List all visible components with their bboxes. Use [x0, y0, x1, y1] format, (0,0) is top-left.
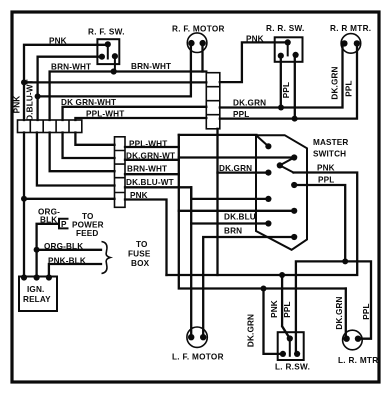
connector stack top-center [206, 73, 220, 129]
svg-text:RELAY: RELAY [23, 295, 51, 304]
svg-text:DK.GRN-WT: DK.GRN-WT [126, 152, 175, 161]
wire R.R.SW bottom-left contact down [280, 56, 282, 108]
master contact R4 [291, 234, 297, 240]
svg-text:BRN-WHT: BRN-WHT [127, 165, 167, 174]
svg-text:ORG-BLK: ORG-BLK [44, 242, 83, 251]
wire BRN to master right contact [203, 237, 294, 337]
wire BRN-WHT [50, 72, 207, 121]
node dot ORG-BLK [34, 247, 40, 253]
wire H1 PNK run [167, 173, 358, 276]
wire PPL from master [294, 185, 345, 261]
svg-text:R. R MTR.: R. R MTR. [330, 24, 371, 33]
switch L.R.SW. box [278, 332, 304, 360]
wire PNK top-left [24, 45, 108, 120]
switch R.R.SW. box [275, 37, 303, 62]
svg-text:PNK: PNK [246, 35, 264, 44]
svg-text:PPL: PPL [283, 301, 292, 317]
contact top R.F.SW [107, 44, 109, 58]
node dot DK.GRN / R.R.SW [278, 105, 284, 111]
wire PPL-WHT top run [75, 118, 206, 120]
wire DK.BLU to master contact [190, 187, 192, 337]
node dot B on V1 [21, 79, 27, 85]
master switch polygon [256, 135, 307, 250]
svg-text:PNK: PNK [13, 96, 22, 114]
wire to top stack cell1 [24, 81, 206, 83]
svg-text:IGN.: IGN. [27, 285, 44, 294]
svg-text:DK.GRN: DK.GRN [331, 66, 340, 99]
svg-text:BRN-WHT: BRN-WHT [131, 62, 171, 71]
wire ORG-BLK power feed [37, 224, 58, 276]
node dot A [35, 93, 41, 99]
svg-text:PNK: PNK [130, 191, 148, 200]
master contact R3 [291, 208, 297, 214]
motor L.R.MTR [343, 330, 363, 350]
wire PPL to R.R.MTR [220, 43, 357, 118]
node dot under RF switch [111, 68, 117, 74]
wire PNK jog down to H1 [125, 200, 167, 276]
wire DK.GRN to R.R.MTR [220, 43, 343, 107]
svg-text:PPL: PPL [345, 80, 354, 96]
svg-text:L. R. MTR.: L. R. MTR. [338, 356, 381, 365]
svg-text:FEED: FEED [76, 229, 98, 238]
svg-text:TO: TO [136, 240, 148, 249]
svg-text:P: P [61, 220, 67, 229]
wire V_B branch to master contact R3 [179, 210, 294, 212]
wire DK GRN-WHT lower run [63, 107, 207, 120]
svg-text:PPL: PPL [233, 110, 249, 119]
wire row cell3 to lower stack cell3 [50, 133, 115, 172]
master lever mid [280, 158, 294, 173]
node dot PPL junction [342, 258, 348, 264]
master contact L2 [265, 170, 271, 176]
node dot PNK bottom [279, 272, 285, 278]
wire PPL-WHT to master switch corner [179, 134, 257, 136]
wire ORG-BLK to fuse box [37, 249, 101, 251]
wire PPL-WHT from stack cell1 [125, 146, 179, 148]
svg-text:PNK: PNK [317, 164, 335, 173]
relay terminal dots [21, 274, 27, 280]
wire PNK to R.R.SW [220, 42, 288, 82]
svg-text:R. F. MOTOR: R. F. MOTOR [172, 25, 225, 34]
node dot C on V1 [21, 196, 27, 202]
motor R.F.MOTOR [187, 33, 207, 53]
svg-text:FUSE: FUSE [128, 250, 151, 259]
wire row cell4 to lower stack cell2 [63, 133, 115, 159]
wire row cell2 to lower stack cell4 [37, 133, 115, 186]
svg-text:BRN-WHT: BRN-WHT [51, 63, 91, 72]
svg-text:PPL: PPL [318, 176, 334, 185]
wire to master contact R1 [179, 156, 294, 158]
svg-text:DK.GRN: DK.GRN [233, 99, 266, 108]
svg-text:L. F. MOTOR: L. F. MOTOR [172, 353, 224, 362]
lever diagonal top [257, 136, 269, 147]
svg-text:DK.GRN: DK.GRN [247, 314, 256, 347]
switch R.F.SW. box [97, 39, 119, 64]
svg-text:D.BLU-WT: D.BLU-WT [26, 79, 35, 121]
connector stack lower-left [115, 137, 126, 208]
svg-text:DK.BLU-WT: DK.BLU-WT [126, 178, 174, 187]
wire V1 below row [23, 133, 25, 277]
svg-text:R. R. SW.: R. R. SW. [266, 24, 305, 33]
wire DK.GRN branch to master contact [218, 171, 269, 173]
brace fuse box [102, 242, 111, 274]
svg-text:PNK: PNK [270, 300, 279, 318]
svg-text:L. R.SW.: L. R.SW. [275, 363, 310, 372]
wire PPL to L.R.MTR [345, 261, 371, 338]
wire BRN-WHT from stack cell3 [125, 173, 179, 175]
wire RF motor right terminal [201, 43, 203, 71]
svg-text:BOX: BOX [131, 259, 150, 268]
svg-text:PNK-BLK: PNK-BLK [48, 257, 86, 266]
wire PNK-BLK to fuse box [49, 264, 101, 276]
contact left R.F.SW [99, 54, 105, 60]
master contact L1 [265, 143, 271, 149]
svg-text:BRN: BRN [224, 227, 242, 236]
wire R.R.SW bottom-right contact down [294, 55, 296, 119]
relay IGN.RELAY box [19, 277, 57, 312]
master contact R2 [291, 182, 297, 188]
wire DK.BLU-WT jog to master contact [125, 187, 268, 199]
wire DK.GRN down to L.R.MTR [345, 289, 347, 339]
wire V_B vertical [179, 135, 346, 289]
connector row left [18, 120, 82, 133]
wire V1 dot to lower stack cell5 [24, 198, 115, 200]
wire row cell5 to lower stack cell1 [75, 133, 114, 145]
svg-text:DK.BLU: DK.BLU [224, 213, 256, 222]
svg-text:BLK: BLK [40, 216, 57, 225]
wire DK.GRN-WT from stack cell2 [125, 159, 179, 161]
svg-text:PPL: PPL [362, 303, 371, 319]
master contact L4 [265, 220, 271, 226]
svg-text:PPL: PPL [282, 82, 291, 98]
svg-text:DK GRN-WHT: DK GRN-WHT [61, 98, 116, 107]
svg-text:DK.GRN: DK.GRN [335, 296, 344, 329]
svg-text:PPL-WHT: PPL-WHT [86, 110, 124, 119]
motor L.F.MOTOR [187, 327, 207, 347]
wire PPL to L.R.SW [296, 261, 345, 354]
wire RF switch left contact [38, 57, 102, 120]
svg-text:PPL-WHT: PPL-WHT [129, 140, 167, 149]
svg-text:R. F. SW.: R. F. SW. [88, 28, 125, 37]
wire DK.GRN down to L.R.SW [264, 289, 283, 354]
node dot PPL / R.R.SW [292, 116, 298, 122]
contact right R.F.SW [114, 56, 116, 71]
master contact R1 [291, 154, 297, 160]
svg-text:SWITCH: SWITCH [313, 149, 346, 158]
wire DK GRN-WHT to RF motor [38, 43, 191, 96]
master contact L3 [265, 196, 271, 202]
svg-text:DK.GRN: DK.GRN [219, 164, 252, 173]
svg-text:MASTER: MASTER [313, 138, 348, 147]
power feed symbol P [59, 219, 68, 229]
wire V_A from stack bottom [216, 129, 218, 275]
svg-text:PNK: PNK [49, 37, 67, 46]
motor R.R.MTR [341, 34, 361, 54]
wire PNK down to L.R.SW lever [282, 275, 290, 339]
node dot H2 DK.GRN [261, 286, 267, 292]
